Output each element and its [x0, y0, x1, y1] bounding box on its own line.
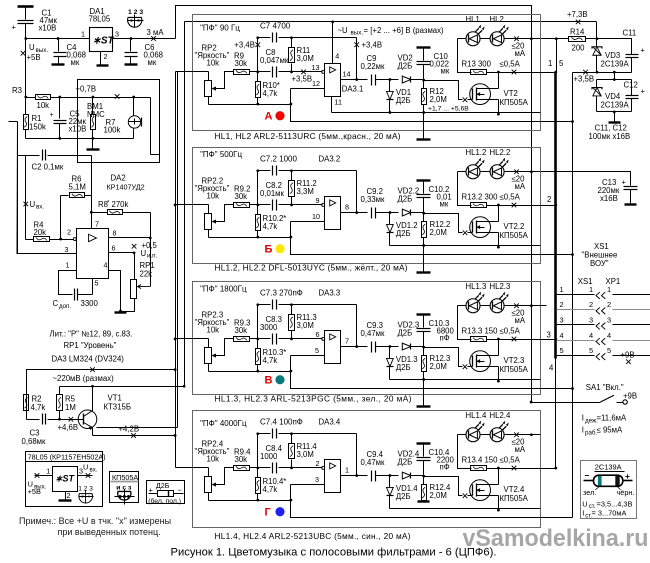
capacitor C9.4: [371, 471, 373, 482]
wire source: [498, 233, 500, 248]
potentiometer RP2.2: [205, 214, 212, 230]
wire VD4 top: [597, 79, 632, 81]
svg-text:8: 8: [345, 202, 349, 211]
svg-text:=3,5...4,3В: =3,5...4,3В: [597, 499, 633, 508]
svg-text:0,33мк: 0,33мк: [361, 195, 386, 204]
svg-text:270k: 270k: [112, 200, 129, 209]
resistor R2: [24, 395, 29, 411]
resistor R11: [291, 38, 293, 48]
node Uвх: [24, 202, 29, 207]
wire R8 right down pin8: [150, 213, 152, 238]
svg-text:2,0М: 2,0М: [430, 362, 447, 371]
svg-text:U: U: [83, 462, 88, 471]
wire aux stub: [97, 427, 178, 429]
resistor R12: [423, 81, 425, 89]
wire aux vertical: [177, 72, 179, 428]
wire Uвх vertical: [25, 156, 27, 240]
svg-text:3: 3: [547, 330, 551, 339]
potentiometer RP2.3: [205, 348, 212, 364]
svg-text:DA2: DA2: [111, 173, 126, 182]
svg-text:Д2Б: Д2Б: [396, 363, 411, 372]
svg-text:+: +: [50, 112, 54, 119]
capacitor C3: [27, 419, 40, 421]
svg-text:HL1, HL2 ARL2-5113URC (5м: HL1, HL2 ARL2-5113URC (5мм.,красн., 20 м…: [215, 131, 401, 141]
svg-text:х16В: х16В: [600, 194, 618, 203]
resistor R4: [34, 237, 50, 242]
wire block input: [176, 467, 209, 469]
svg-text:≤0,5А: ≤0,5А: [500, 326, 521, 335]
svg-text:DA3.4: DA3.4: [319, 418, 341, 427]
input terminal stub: [9, 121, 18, 123]
op-amp DA3.2: [322, 203, 325, 206]
wire feedback vertical: [356, 171, 358, 213]
transistor VT1: [78, 410, 97, 429]
connector contact 2: [596, 307, 605, 314]
svg-text:Д2Б: Д2Б: [396, 96, 411, 105]
svg-text:= [+2 ... +6] В (размах): = [+2 ... +6] В (размах): [364, 26, 445, 35]
svg-text:Д2Б: Д2Б: [396, 492, 411, 501]
svg-text:≤0,5А: ≤0,5А: [500, 455, 521, 464]
svg-text:3: 3: [560, 315, 564, 324]
wire drain: [498, 340, 500, 356]
ground C6: [125, 63, 138, 65]
svg-text:78L05: 78L05: [89, 14, 111, 23]
node +3,4В right: [354, 42, 359, 47]
colored dot: [275, 507, 284, 516]
pin 8 wire: [109, 237, 151, 239]
connector contact 4: [596, 338, 605, 345]
wire drain: [498, 206, 500, 222]
svg-text:2: 2: [104, 52, 108, 61]
svg-text:12: 12: [312, 79, 320, 88]
resistor R1: [25, 98, 27, 115]
wire R4 to pin2: [50, 239, 74, 241]
resistor R9.2: [216, 205, 234, 222]
svg-text:вх.: вх.: [36, 204, 44, 211]
wire pin4 power: [332, 22, 334, 64]
capacitor C12: [631, 80, 633, 96]
LED HL2.3: [480, 305, 491, 307]
resistor R9: [216, 72, 234, 89]
wire gate: [424, 81, 463, 100]
resistor R12.3: [423, 348, 425, 356]
diode VD2.2: [387, 212, 399, 214]
svg-text:мк: мк: [441, 66, 450, 75]
svg-text:≤ 95мА: ≤ 95мА: [597, 425, 623, 434]
wire LED right: [504, 38, 532, 40]
svg-text:22k: 22k: [140, 269, 153, 278]
wire VD3 to +3,5 node: [596, 56, 598, 73]
ground DA2: [115, 311, 127, 313]
LED HL1.4: [458, 434, 467, 436]
wire +7,3V rail: [185, 21, 597, 23]
svg-text:5: 5: [315, 346, 319, 355]
svg-text:10k: 10k: [207, 191, 220, 200]
wire R14 left: [532, 38, 569, 40]
svg-text:10k: 10k: [207, 325, 220, 334]
svg-text:DA3.1: DA3.1: [342, 85, 364, 94]
node Uвых +5В: [21, 51, 26, 56]
svg-text:мА: мА: [515, 316, 526, 325]
svg-text:1000: 1000: [260, 452, 278, 461]
svg-text:В: В: [265, 374, 273, 386]
svg-text:−: −: [585, 470, 590, 480]
wire +7,3V left vertical: [184, 22, 186, 387]
svg-text:R13.4 150: R13.4 150: [462, 455, 499, 464]
pin 4 wire: [109, 271, 121, 312]
connector wire 4: [557, 340, 595, 342]
switch SA1: [532, 402, 601, 404]
svg-text:C7 4700: C7 4700: [260, 22, 291, 31]
capacitor C10.2: [417, 179, 431, 181]
wire source rail: [390, 245, 541, 247]
capacitor C11: [626, 54, 639, 56]
svg-text:4: 4: [104, 260, 108, 269]
legend КП505А TO92: [118, 491, 131, 500]
legend 78L05 box: [26, 452, 103, 507]
svg-text:+: +: [622, 177, 627, 186]
wire R6 left down: [60, 196, 62, 240]
svg-text:2: 2: [67, 491, 71, 500]
stabistor VD3: [592, 47, 602, 49]
svg-text:10: 10: [312, 212, 320, 221]
svg-text:КП505А: КП505А: [112, 473, 138, 482]
svg-text:8: 8: [113, 228, 117, 237]
svg-text:1: 1: [589, 285, 593, 294]
svg-text:5: 5: [560, 346, 564, 355]
svg-text:+5В: +5В: [28, 487, 41, 496]
resistor R12.4: [423, 477, 425, 485]
svg-text:C7.4 100пФ: C7.4 100пФ: [260, 418, 303, 427]
wire Сдоп to pin5: [78, 294, 93, 296]
svg-text:I: I: [582, 425, 584, 434]
svg-text:3,0М: 3,0М: [297, 54, 314, 63]
svg-text:14: 14: [343, 69, 351, 78]
wire RP1 wiper: [150, 238, 152, 287]
svg-text:7: 7: [95, 219, 99, 228]
svg-text:зел.: зел.: [583, 488, 596, 497]
svg-text:4,7k: 4,7k: [263, 222, 278, 231]
svg-text:HL1.2: HL1.2: [466, 148, 487, 157]
microphone BM1: [133, 98, 135, 116]
capacitor C9.2: [371, 208, 373, 219]
resistor R13.3: [458, 306, 472, 340]
wire DA1 out to corner: [113, 38, 176, 40]
svg-text:+4,6В: +4,6В: [58, 423, 79, 432]
svg-text:0,47мк: 0,47мк: [361, 458, 386, 467]
svg-text:Д2Б: Д2Б: [398, 457, 413, 466]
resistor R8: [92, 212, 108, 214]
connector wire 1: [557, 294, 595, 296]
svg-text:5: 5: [607, 346, 611, 355]
capacitor C7: [258, 37, 271, 39]
colored dot: [275, 111, 284, 120]
svg-text:HL1.2, HL2.2 DFL-5013UYC: HL1.2, HL2.2 DFL-5013UYC (5мм., жёлт., 2…: [215, 262, 408, 272]
wire source: [498, 367, 500, 382]
svg-text:6: 6: [112, 243, 116, 252]
svg-text:+3,4В: +3,4В: [362, 40, 383, 49]
svg-text:"ПФ" 1800Гц: "ПФ" 1800Гц: [200, 284, 247, 293]
svg-text:3300: 3300: [81, 299, 99, 308]
resistor R9.4: [216, 468, 234, 485]
filter block box "ПФ" 1800Гц: [193, 282, 541, 395]
svg-text:DA3.2: DA3.2: [319, 155, 341, 164]
capacitor C9.3: [371, 342, 373, 353]
svg-text:и.п.: и.п.: [147, 253, 158, 260]
wire net4: [555, 359, 557, 469]
diode VD2.3: [387, 346, 399, 348]
wire +9V top rail: [176, 6, 532, 403]
svg-text:"ПФ" 500Гц: "ПФ" 500Гц: [200, 150, 242, 159]
connector contact 3: [596, 323, 605, 330]
resistor R13.2: [458, 172, 472, 206]
wire node vertical: [257, 171, 259, 215]
svg-text:3,3М: 3,3М: [297, 187, 314, 196]
wire gate: [424, 348, 463, 367]
svg-text:0,047мк: 0,047мк: [260, 56, 289, 65]
bus line 1-5: [554, 73, 557, 359]
svg-text:DA3.3: DA3.3: [319, 289, 341, 298]
LED HL1: [458, 38, 467, 40]
wire input vertical: [17, 122, 19, 254]
svg-text:VT2.3: VT2.3: [504, 356, 525, 365]
capacitor C4: [58, 39, 60, 52]
capacitor C10.3: [417, 313, 431, 315]
svg-text:Примеч.: Все +U в тчк. "х" изм: Примеч.: Все +U в тчк. "х" измерены: [19, 516, 171, 526]
capacitor C8.4: [258, 467, 271, 469]
capacitor C5: [59, 98, 61, 119]
svg-text:КР1407УД2: КР1407УД2: [107, 182, 145, 191]
svg-text:3: 3: [589, 315, 593, 324]
svg-text:HL2: HL2: [490, 15, 504, 24]
svg-text:≤0,5А: ≤0,5А: [500, 192, 521, 201]
capacitor C2: [18, 155, 40, 157]
svg-text:Г: Г: [265, 506, 272, 518]
stabistor VD4: [596, 80, 598, 88]
svg-text:∗ST: ∗ST: [93, 35, 115, 46]
svg-text:1: 1: [345, 465, 349, 474]
wire +3,5V distribution: [572, 73, 574, 518]
transistor VT2.2: [470, 217, 491, 238]
svg-text:1: 1: [607, 285, 611, 294]
filter block box "ПФ" 500Гц: [193, 148, 541, 264]
svg-text:1: 1: [46, 466, 50, 475]
wire rail jog: [291, 485, 573, 518]
svg-text:+3,5В: +3,5В: [292, 74, 313, 83]
legend ST box: [53, 467, 78, 492]
wire DA1 pin2 to ground: [100, 52, 102, 65]
svg-text:200: 200: [572, 43, 586, 52]
resistor R3: [26, 97, 36, 99]
filter block box "ПФ" 4000Гц: [193, 411, 541, 528]
svg-text:SA1 "Вкл.": SA1 "Вкл.": [586, 383, 624, 392]
transistor VT2.3: [470, 351, 491, 372]
capacitor C6: [130, 39, 132, 52]
svg-text:DA3 LM324 (DV324): DA3 LM324 (DV324): [52, 354, 125, 363]
resistor R11.4: [291, 434, 293, 444]
svg-text:+4,2В: +4,2В: [119, 424, 140, 433]
wire pot bottom: [208, 364, 210, 372]
wire blk4 LED ext: [532, 434, 541, 436]
transistor VT2.4: [470, 480, 491, 501]
svg-text:HL2.3: HL2.3: [490, 282, 511, 291]
wire block input: [176, 71, 209, 73]
wire node vertical: [257, 305, 259, 349]
wire feedback vertical: [356, 38, 358, 80]
power input terminal bar: [18, 5, 34, 8]
svg-text:+: +: [641, 45, 646, 54]
svg-text:+5В: +5В: [27, 53, 41, 62]
wire drain: [498, 469, 500, 485]
svg-text:1: 1: [548, 59, 552, 68]
wire gnd stem: [614, 112, 616, 122]
wire output: [341, 346, 368, 348]
svg-text:78L05 (КР1157ЕН502А): 78L05 (КР1157ЕН502А): [28, 453, 106, 462]
capacitor C1: [25, 8, 27, 20]
connector wire 2: [557, 309, 595, 311]
potentiometer RP2.4: [205, 477, 212, 493]
svg-text:пФ: пФ: [440, 462, 450, 471]
resistor R10.3*: [256, 349, 261, 365]
svg-text:"ПФ" 4000Гц: "ПФ" 4000Гц: [200, 419, 247, 428]
svg-text:10k: 10k: [37, 101, 50, 110]
svg-text:∗ST: ∗ST: [55, 473, 76, 483]
svg-text:КП505А: КП505А: [500, 231, 529, 240]
filter block box "ПФ" 90 Гц: [193, 15, 541, 131]
svg-text:Д2Б: Д2Б: [156, 481, 170, 490]
wire pin noninv: [291, 88, 325, 90]
wire pin6 to RP1: [134, 253, 136, 280]
potentiometer RP1: [131, 280, 137, 299]
wire VD4 bottom: [597, 111, 632, 113]
wire R7 gnd stub: [92, 139, 94, 149]
svg-text:1: 1: [560, 285, 564, 294]
svg-text:~220мВ (размах): ~220мВ (размах): [53, 374, 115, 383]
svg-text:+9В: +9В: [623, 391, 637, 400]
wire node vertical: [257, 434, 259, 478]
svg-text:C7.2 1000: C7.2 1000: [260, 155, 297, 164]
svg-text:доп.: доп.: [59, 303, 71, 310]
capacitor C7.2: [258, 170, 271, 172]
svg-text:10k: 10k: [207, 454, 220, 463]
wire block bottom rail: [209, 371, 291, 373]
svg-text:6: 6: [316, 330, 320, 339]
svg-text:+7,3В: +7,3В: [567, 10, 588, 19]
ground C11 C12: [609, 121, 621, 123]
svg-text:Рисунок 1. Цветомузыка с поло: Рисунок 1. Цветомузыка с полосовыми филь…: [171, 546, 497, 558]
svg-text:HL1.3: HL1.3: [466, 282, 487, 291]
svg-text:мк: мк: [71, 58, 80, 67]
potentiometer RP2: [205, 81, 212, 97]
svg-text:HL1.3, HL2.3 ARL-5213PGC: HL1.3, HL2.3 ARL-5213PGC (5мм., зел., 20…: [215, 393, 412, 403]
wire block bottom rail: [209, 104, 291, 106]
svg-text:Д2Б: Д2Б: [398, 61, 413, 70]
svg-text:2,0М: 2,0М: [430, 95, 447, 104]
wire R14 right to C11: [586, 39, 632, 55]
ground C4: [52, 63, 65, 65]
svg-text:NMC: NMC: [87, 110, 105, 119]
capacitor C8: [258, 71, 271, 73]
svg-text:2С139А: 2С139А: [601, 100, 630, 109]
svg-text:=11,6мА: =11,6мА: [597, 413, 628, 422]
wire rail jog: [291, 222, 573, 255]
pin 6 wire: [109, 252, 135, 254]
svg-text:13: 13: [312, 63, 320, 72]
op-amp DA3.3: [322, 337, 325, 340]
resistor R10.2*: [256, 215, 261, 231]
svg-text:3,0М: 3,0М: [297, 450, 314, 459]
pin 2 wire: [26, 239, 34, 241]
svg-text:пФ: пФ: [440, 333, 450, 342]
capacitor C8.3: [258, 338, 271, 340]
svg-text:КП505А: КП505А: [500, 98, 529, 107]
wire C1 down: [25, 39, 27, 98]
wire output: [341, 212, 368, 214]
wire +0,7V node: [60, 97, 151, 99]
svg-text:С: С: [53, 299, 59, 308]
svg-text:2,0М: 2,0М: [430, 228, 447, 237]
svg-text:мк: мк: [148, 58, 157, 67]
wire pin noninv: [291, 221, 325, 223]
svg-text:100k: 100k: [104, 125, 121, 134]
transistor VT2: [470, 84, 491, 105]
legend КП505А box: [110, 472, 139, 503]
svg-text:HL2.2: HL2.2: [490, 148, 511, 157]
svg-text:C12: C12: [624, 80, 638, 89]
legend TO92: [79, 494, 93, 503]
wire node vertical: [257, 38, 259, 82]
svg-text:4,7k: 4,7k: [263, 89, 278, 98]
svg-text:4: 4: [549, 363, 554, 372]
resistor R10*: [256, 82, 261, 98]
wire signal bus vertical: [175, 72, 177, 468]
svg-text:2,0М: 2,0М: [430, 491, 447, 500]
svg-text:I: I: [582, 413, 584, 422]
svg-text:+1,7 ... +5,6В: +1,7 ... +5,6В: [428, 105, 469, 112]
connector wire 5: [557, 355, 595, 357]
wire R6 node to pin7: [91, 196, 93, 229]
svg-text:2С139А: 2С139А: [601, 59, 630, 68]
svg-text:4: 4: [560, 331, 564, 340]
svg-text:1М: 1М: [65, 403, 76, 412]
resistor R12.2: [423, 214, 425, 222]
svg-text:Д2Б: Д2Б: [398, 328, 413, 337]
svg-text:4: 4: [607, 331, 611, 340]
svg-text:20k: 20k: [34, 228, 47, 237]
ground DA1: [97, 64, 109, 66]
svg-text:2: 2: [560, 300, 564, 309]
connector contact 5: [596, 353, 605, 360]
wire blk3 LED ext: [532, 305, 547, 307]
svg-text:x10В: x10В: [39, 23, 57, 32]
svg-text:7: 7: [345, 336, 349, 345]
wire source: [498, 496, 500, 511]
wire output: [341, 475, 368, 477]
diode VD1: [389, 78, 392, 81]
colored dot: [275, 244, 284, 253]
svg-text:2: 2: [316, 459, 320, 468]
legend 2С139А box: [581, 461, 637, 519]
wire pot bottom: [208, 97, 210, 105]
colored dot: [275, 375, 284, 384]
svg-text:VT2: VT2: [504, 89, 518, 98]
wire LED right: [504, 171, 532, 173]
diode VD1.2: [389, 211, 392, 214]
resistor R11.3: [291, 305, 293, 315]
wire source rail: [390, 508, 541, 510]
svg-text:+3,5В: +3,5В: [574, 74, 595, 83]
op-amp DA2: [77, 229, 109, 279]
